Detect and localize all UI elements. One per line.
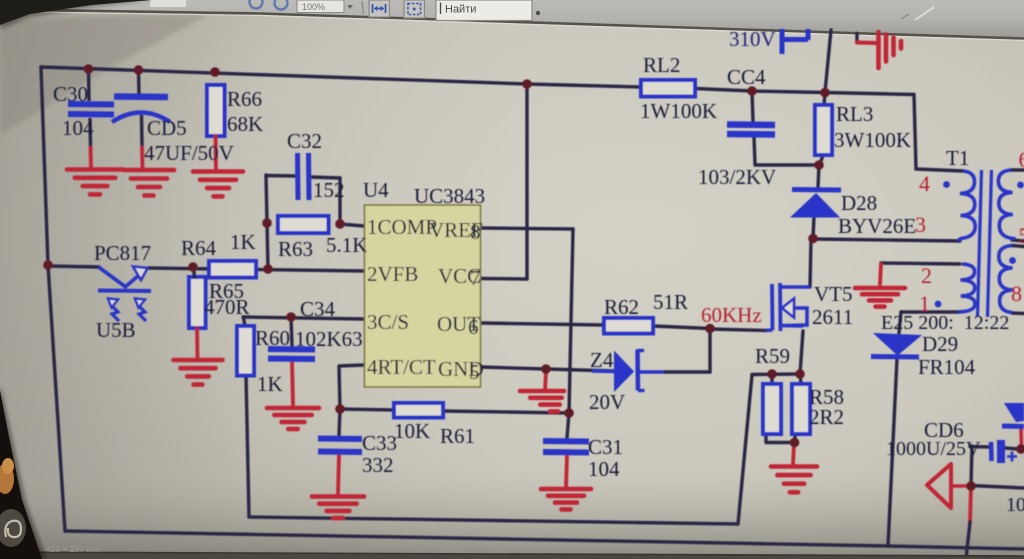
- svg-text:332: 332: [362, 453, 394, 477]
- diode D28: [790, 190, 841, 218]
- svg-text:Найти: Найти: [445, 4, 476, 16]
- T1 phase dot pin4: [943, 181, 950, 188]
- wire source node rail: [752, 372, 800, 376]
- wire RL2 to CC4 node: [695, 89, 752, 92]
- wire VT5 drain: [810, 240, 811, 287]
- svg-text:51R: 51R: [653, 290, 688, 314]
- transistor VT5 MOSFET: [766, 283, 810, 331]
- svg-text:R61: R61: [440, 424, 475, 448]
- wire left rail: [41, 67, 65, 531]
- wire bottom inner rail: [249, 517, 738, 524]
- reflection scratch: [915, 7, 934, 20]
- wire CC4 to RL3 node: [755, 163, 819, 166]
- svg-text:R63: R63: [278, 237, 313, 261]
- svg-text:3C/S: 3C/S: [367, 310, 409, 334]
- svg-text:100%: 100%: [302, 2, 325, 12]
- capacitor C31: [543, 441, 589, 453]
- resistor R66: [207, 85, 225, 136]
- svg-text:CC4: CC4: [727, 65, 766, 89]
- wire T1 pin4 stub: [916, 169, 963, 171]
- svg-text:2: 2: [921, 263, 932, 288]
- dropdown tick: [347, 5, 353, 9]
- wire Z4 cathode to gate branch: [664, 370, 710, 373]
- svg-text:5.1K: 5.1K: [326, 233, 367, 257]
- wire top rail left: [41, 67, 527, 84]
- svg-text:C30: C30: [53, 82, 88, 106]
- svg-text:8: 8: [470, 220, 481, 244]
- svg-text:1W100K: 1W100K: [640, 99, 717, 123]
- svg-text:R59: R59: [755, 344, 790, 368]
- T1 phase dot secondary top: [1017, 182, 1024, 189]
- svg-text:10K: 10K: [394, 419, 430, 443]
- node node VREF R61 C31: [564, 408, 574, 418]
- svg-text:—: —: [362, 545, 370, 554]
- wire gate node down to Z4: [708, 329, 711, 372]
- resistor R62: [604, 318, 653, 334]
- separator: [362, 1, 364, 14]
- wire C32 right lead: [310, 177, 340, 178]
- wire R65 top stem: [194, 267, 195, 277]
- wire edge diode stub (red): [1019, 429, 1023, 446]
- T1 phase dot pin1: [935, 301, 942, 308]
- ground under R58 R59: [771, 467, 817, 493]
- wire C32 left lead: [266, 174, 296, 178]
- wire CD6 left lead: [970, 445, 989, 449]
- svg-text:U5B: U5B: [96, 318, 136, 342]
- node node gnd rail: [541, 364, 551, 374]
- wire arrow to node (red): [951, 484, 966, 488]
- ground under C30: [67, 170, 123, 195]
- wire VT5 source: [800, 331, 803, 374]
- svg-text:104: 104: [62, 116, 94, 140]
- svg-text:47UF/50V: 47UF/50V: [144, 141, 234, 165]
- svg-text:60KHz: 60KHz: [701, 303, 762, 327]
- wire T1 pin2 stub: [881, 263, 960, 264]
- paperclip blob on bezel: [0, 509, 26, 547]
- resistor R60: [237, 326, 254, 376]
- wire R60 top stem: [244, 318, 246, 327]
- wire pin1 COMP stub: [340, 224, 364, 226]
- node node sense bottom: [790, 438, 800, 448]
- zoom icon 2: [275, 0, 288, 10]
- wire PC817 to VFB pin2: [148, 268, 364, 271]
- node node R63 left: [262, 218, 272, 228]
- node node D28 anode: [808, 234, 818, 244]
- svg-text:R66: R66: [227, 87, 262, 111]
- wire secondary stub bottom: [1012, 311, 1024, 315]
- wire gnd stub (red): [545, 371, 546, 390]
- svg-text:UC3843: UC3843: [414, 184, 485, 208]
- wire node to C33: [339, 409, 340, 435]
- wire T1 pin1 stub: [901, 310, 960, 313]
- search box: [436, 0, 532, 21]
- toolbar faint entry left: [150, 0, 186, 7]
- svg-text:RL3: RL3: [836, 102, 873, 126]
- wire secondary stub mid1: [1012, 240, 1024, 241]
- svg-text:RL2: RL2: [643, 53, 680, 77]
- chassis ground top right: [879, 32, 902, 68]
- svg-text:152: 152: [313, 178, 345, 202]
- wire R65 to ground (red): [195, 328, 199, 358]
- wire secondary down rail: [971, 446, 972, 486]
- svg-text:20V: 20V: [589, 390, 625, 414]
- wire VCC pin7 stub: [481, 277, 527, 281]
- svg-text:8: 8: [1011, 281, 1022, 306]
- ground at GND rail: [520, 391, 564, 411]
- wire C34 top stem: [291, 317, 292, 346]
- wire R59 top stem: [770, 374, 773, 384]
- button fit-page: [404, 0, 425, 18]
- resistor R59: [763, 384, 781, 434]
- svg-text:104: 104: [1006, 494, 1024, 516]
- svg-text:R60: R60: [255, 326, 290, 350]
- svg-text:1COMP: 1COMP: [367, 215, 437, 239]
- capacitor CD5 (electrolytic): [112, 70, 170, 168]
- node node RT/CT: [335, 404, 345, 414]
- wire CD6 right lead: [1005, 448, 1018, 449]
- transformer T1 primary winding bottom (pins 2-1): [958, 264, 975, 312]
- svg-text:C31: C31: [588, 435, 623, 459]
- node node R66 top: [210, 67, 220, 77]
- svg-text:3W100K: 3W100K: [834, 128, 911, 152]
- wire pin2 to ground (red): [880, 264, 881, 284]
- wire sense resistors to ground (red): [793, 444, 794, 464]
- svg-text:E25 200: 12:22: E25 200: 12:22: [881, 312, 1009, 334]
- node node RL3 top: [820, 88, 830, 98]
- capacitor CC4: [727, 125, 775, 135]
- percent box: [297, 0, 344, 13]
- resistor R63: [278, 216, 329, 233]
- orange clip in front of screen: [0, 464, 14, 494]
- T1 phase dot secondary bottom: [1009, 257, 1016, 264]
- wire node to C31: [567, 413, 569, 438]
- wire C34 to ground (red): [292, 361, 293, 405]
- svg-text:6: 6: [1019, 147, 1024, 172]
- wire CC4 node to RL3 node: [752, 91, 825, 93]
- wire R58 top stem: [800, 374, 801, 384]
- svg-text:R64: R64: [181, 236, 217, 260]
- node node R64 left: [188, 262, 198, 272]
- wire secondary stub mid2: [1012, 246, 1024, 247]
- node node gate: [705, 324, 715, 334]
- svg-text:420 × 297 mm: 420 × 297 mm: [46, 544, 101, 554]
- wire RL3 node to T1 corner: [825, 93, 914, 95]
- wire output node to bottom: [966, 522, 970, 559]
- node node VCC drop: [522, 79, 532, 89]
- svg-text:C34: C34: [300, 297, 336, 321]
- wire down to T1 pin4: [914, 95, 916, 170]
- resistor RL2: [641, 80, 695, 97]
- wire RL3 top stem: [824, 93, 825, 106]
- diode at right edge: [1002, 403, 1024, 427]
- svg-text:Z4: Z4: [590, 348, 614, 372]
- bottom screen edge: [0, 552, 1024, 559]
- transformer T1 core: [978, 170, 992, 317]
- wire D28 cathode stem: [818, 165, 819, 187]
- svg-text:C33: C33: [362, 431, 397, 455]
- ground under C34: [267, 408, 319, 429]
- wire VREF pin8: [481, 228, 573, 229]
- wire gate node to VT5 gate: [710, 329, 766, 331]
- node node R63 right: [335, 219, 345, 229]
- svg-text:FR104: FR104: [918, 355, 976, 379]
- wire RL3 bottom stem: [820, 155, 823, 164]
- node node RL3 bottom: [814, 160, 824, 170]
- wire R62 to gate node: [653, 326, 710, 329]
- diode D29: [871, 333, 922, 357]
- svg-text:U4: U4: [363, 178, 389, 202]
- wire chassis ground lead (red): [857, 41, 877, 46]
- node node CD5 top: [134, 65, 144, 75]
- wire D28 anode stem: [813, 217, 814, 238]
- capacitor C34: [268, 349, 315, 359]
- svg-text:310V: 310V: [729, 27, 776, 51]
- wire RT/CT pin4: [339, 365, 364, 409]
- node node PC817 left: [43, 260, 53, 270]
- wire C/S pin3: [243, 317, 364, 319]
- node node C30 top: [84, 64, 94, 74]
- capacitor CD6 (electrolytic): [991, 440, 1017, 463]
- node node R58 top: [795, 369, 805, 379]
- node node CD6 right: [1016, 444, 1024, 454]
- ground under R66: [193, 172, 243, 197]
- wire D28 node to T1 pin3: [813, 239, 960, 241]
- wire R63 left drop: [267, 223, 268, 269]
- svg-text:2VFB: 2VFB: [367, 262, 418, 286]
- wire R66 to ground (red): [214, 136, 218, 170]
- wire gnd rail to Z4 anode: [546, 369, 614, 371]
- ground under C31: [541, 489, 591, 509]
- wire GND pin5 stub: [481, 367, 546, 369]
- wire D29 to bottom rail: [888, 359, 897, 546]
- transformer T1 primary winding top (pins 4-3): [958, 171, 975, 241]
- wire VREF vertical: [569, 229, 573, 413]
- wire R59 R58 bottoms: [766, 434, 795, 443]
- svg-text:104: 104: [588, 457, 620, 481]
- wire C31 to ground (red): [566, 455, 567, 488]
- ground under CD5: [124, 170, 174, 196]
- red output arrow: [927, 464, 951, 508]
- ground under R65: [174, 360, 223, 385]
- ground under C33: [312, 497, 364, 519]
- node node R64 right: [263, 264, 273, 274]
- svg-text:1K: 1K: [230, 230, 256, 254]
- zoom icon 1: [250, 0, 263, 9]
- svg-text:CD5: CD5: [147, 116, 187, 140]
- wire R61 to VREF node: [443, 411, 569, 413]
- svg-text:2R2: 2R2: [809, 405, 844, 429]
- svg-text:103/2KV: 103/2KV: [698, 165, 776, 189]
- svg-text:BYV26E: BYV26E: [838, 214, 916, 238]
- resistor R65: [189, 277, 206, 328]
- 310V net flag: [780, 29, 808, 54]
- wire C33 to ground (red): [338, 455, 339, 494]
- wire sense riser: [738, 375, 752, 524]
- button fit-width: [369, 0, 390, 17]
- wire CC4 bottom stem: [754, 137, 755, 164]
- capacitor C32: [298, 153, 310, 200]
- wire C32 left drop: [266, 175, 267, 223]
- wire stub to chassis ground: [855, 34, 858, 42]
- wire VCC drop: [525, 84, 528, 279]
- node node C34 top: [286, 312, 296, 322]
- svg-text:4RT/CT: 4RT/CT: [367, 355, 436, 379]
- wire output node right: [971, 486, 1024, 489]
- wire C32 right drop: [338, 178, 341, 224]
- wire OUT pin6 to R62: [481, 323, 604, 325]
- svg-text:6: 6: [468, 315, 479, 339]
- svg-text:1K: 1K: [257, 372, 283, 396]
- wire pin1 down to D29: [899, 312, 901, 333]
- svg-text:D29: D29: [922, 332, 958, 356]
- bezel corner top-left: [0, 0, 152, 25]
- svg-text:D28: D28: [841, 191, 877, 215]
- resistor R64: [209, 261, 256, 278]
- wire bottom outer rail: [65, 531, 1024, 549]
- resistor RL3: [815, 105, 832, 155]
- op-amp U4 UC3843 PWM controller: [365, 205, 484, 387]
- optocoupler U5B PC817 (transistor side): [98, 267, 151, 322]
- svg-text:R62: R62: [604, 295, 639, 319]
- toolbar bottom edge: [0, 10, 1024, 39]
- svg-text:1000U/25V: 1000U/25V: [886, 438, 981, 460]
- svg-text:102K63: 102K63: [295, 327, 363, 351]
- node node output arrow: [966, 481, 976, 491]
- svg-text:PC817: PC817: [94, 241, 151, 265]
- svg-text:C32: C32: [287, 129, 322, 153]
- resistor R58: [792, 384, 810, 434]
- ground at T1 pin2: [855, 288, 905, 307]
- wire CC4 top stem: [752, 92, 753, 122]
- wire output node down (red): [970, 488, 971, 522]
- svg-text:4: 4: [919, 171, 930, 196]
- wire node to PC817 collector: [48, 266, 99, 267]
- svg-text:VT5: VT5: [814, 282, 853, 306]
- capacitor C30: [68, 69, 114, 168]
- wire top rail to RL2: [527, 84, 641, 87]
- dropdown dot: [536, 11, 540, 15]
- svg-text:3: 3: [915, 212, 926, 237]
- zener Z4: [592, 350, 664, 393]
- wire node to R61: [340, 409, 394, 410]
- node node CC4 top: [747, 86, 757, 96]
- wire secondary stub top: [1011, 168, 1024, 171]
- svg-text:T1: T1: [946, 146, 969, 170]
- svg-text:2611: 2611: [812, 305, 853, 329]
- svg-text:1: 1: [919, 291, 930, 316]
- bezel corner bottom-left: [0, 390, 42, 559]
- toolbar bar: [0, 0, 1024, 39]
- node node R59 top: [767, 369, 777, 379]
- transformer T1 secondary winding top: [998, 170, 1013, 240]
- wire 310V rail drop: [825, 30, 831, 92]
- wire R60 bottom drop: [246, 375, 249, 517]
- svg-text:7: 7: [470, 266, 481, 290]
- resistor R61: [394, 403, 443, 418]
- svg-text:5: 5: [469, 360, 480, 384]
- svg-text:68K: 68K: [227, 112, 263, 136]
- svg-text:5: 5: [1019, 223, 1024, 248]
- capacitor C33: [318, 439, 362, 453]
- svg-text:470R: 470R: [204, 295, 250, 319]
- transformer T1 secondary winding bottom: [999, 246, 1013, 313]
